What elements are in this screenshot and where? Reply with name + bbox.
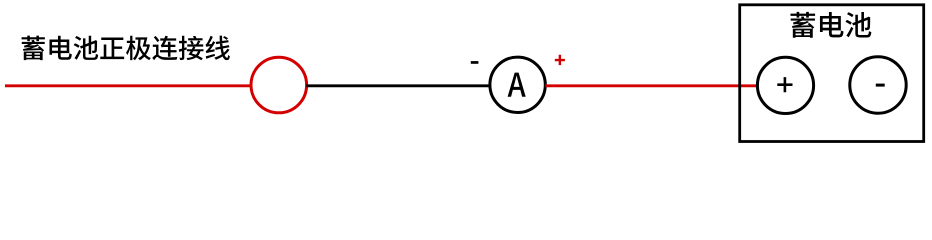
battery BT1 title 蓄电池 xyxy=(790,12,871,38)
label: plus polarity at ammeter right (red) xyxy=(555,55,565,65)
label: minus polarity at ammeter left xyxy=(471,61,479,64)
label: battery positive cable text 蓄电池正极连接线 xyxy=(22,36,230,61)
battery negative terminal minus sign xyxy=(876,84,885,87)
ammeter A1 letter A xyxy=(508,73,526,97)
wire W3: red wire from ammeter to battery positive terminal xyxy=(545,84,758,87)
battery BT1 box xyxy=(740,5,924,142)
wire W1: red positive cable from left edge to connector circle xyxy=(5,84,252,87)
battery negative terminal circle xyxy=(850,57,906,113)
wire W2: black wire from connector circle to ammeter xyxy=(306,84,490,87)
battery positive terminal plus sign xyxy=(777,77,792,92)
connector circle J1 (red terminal loop) xyxy=(251,57,307,113)
ammeter A1 body circle xyxy=(490,57,545,112)
battery positive terminal circle xyxy=(757,57,813,113)
